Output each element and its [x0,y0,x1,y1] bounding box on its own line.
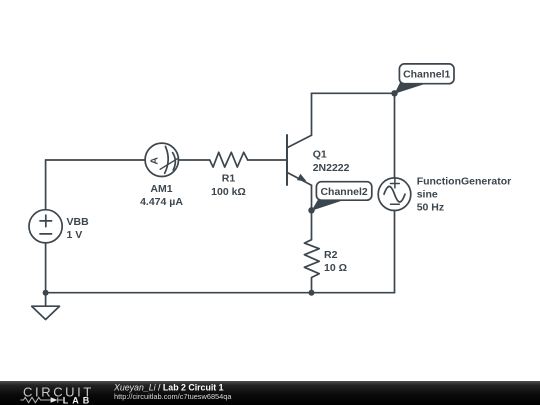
svg-text:LAB: LAB [63,395,94,405]
svg-text:VBB: VBB [67,216,90,228]
svg-text:R2: R2 [324,249,338,261]
svg-text:2N2222: 2N2222 [313,162,350,174]
svg-text:AM1: AM1 [150,183,172,195]
svg-text:4.474 µA: 4.474 µA [140,196,183,208]
svg-text:Channel1: Channel1 [403,69,450,81]
svg-text:100 kΩ: 100 kΩ [211,186,246,198]
svg-text:http://circuitlab.com/c7tuesw6: http://circuitlab.com/c7tuesw6854qa [114,392,232,401]
svg-text:Xueyan_Li / Lab 2 Circuit 1: Xueyan_Li / Lab 2 Circuit 1 [113,383,224,393]
svg-text:FunctionGenerator: FunctionGenerator [417,176,512,188]
svg-text:Channel2: Channel2 [320,186,367,198]
svg-text:sine: sine [417,189,438,201]
svg-text:10 Ω: 10 Ω [324,262,347,274]
svg-text:R1: R1 [222,173,236,185]
svg-text:A: A [148,157,160,165]
svg-text:1 V: 1 V [67,229,83,241]
svg-text:Q1: Q1 [313,149,327,161]
svg-text:50 Hz: 50 Hz [417,202,444,214]
